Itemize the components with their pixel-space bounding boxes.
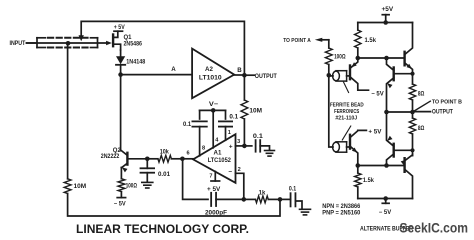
label 10M input <box>74 184 87 190</box>
node 1k 0.1 junction <box>278 197 283 202</box>
transistor Q2 2N2222 <box>121 153 147 173</box>
node Y junction <box>356 163 361 168</box>
label 1N4148 <box>126 59 146 65</box>
capacitor 0.1 at A1 pin 3 <box>256 140 261 152</box>
node X limiter junction <box>384 56 389 61</box>
label A1 <box>214 149 222 156</box>
wire pin6 node to A1 <box>182 158 193 160</box>
ferrite bead top <box>329 71 350 81</box>
leader bottom bead <box>342 126 351 140</box>
label node A <box>171 66 176 73</box>
input terminal label <box>10 40 26 47</box>
label 0.1 bottom <box>289 186 297 192</box>
node A1 pin6 junction <box>180 157 185 162</box>
power -5V Q2 <box>114 192 126 208</box>
svg-text:2N5486: 2N5486 <box>124 41 143 47</box>
ground at 0.01 <box>142 182 153 188</box>
node Y limiter junction <box>384 163 389 168</box>
rail +5V top <box>358 22 413 24</box>
wire Q2 collector elbow <box>121 150 128 155</box>
label OUTPUT buffer <box>432 109 453 116</box>
label 100 ohm buffer <box>334 54 346 60</box>
svg-text:A1: A1 <box>214 149 222 156</box>
label OUTPUT <box>255 73 277 80</box>
rail V- <box>200 109 226 111</box>
svg-text:6: 6 <box>186 151 189 157</box>
label 100 ohm <box>126 183 137 189</box>
svg-text:1.5k: 1.5k <box>363 178 375 184</box>
label A2 <box>205 66 213 73</box>
wire 10k to pin6 node <box>171 158 182 160</box>
label V- terminal <box>209 101 219 108</box>
svg-text:0.1: 0.1 <box>183 122 192 128</box>
label minus input <box>228 169 232 176</box>
node +5V rail junction <box>383 20 388 25</box>
svg-text:OUTPUT: OUTPUT <box>255 73 277 80</box>
wire base node down <box>146 159 148 169</box>
svg-text:7: 7 <box>209 174 212 180</box>
svg-text:+ 5V: + 5V <box>207 187 220 193</box>
wire output to 8 ohm bottom <box>412 112 414 118</box>
label 8 ohm top <box>418 92 425 98</box>
caption LINEAR TECHNOLOGY CORP <box>76 222 249 236</box>
svg-text:1k: 1k <box>259 191 266 197</box>
wire A1 pin 3 <box>236 145 245 147</box>
wire output stub <box>413 111 431 113</box>
wire node B to output <box>244 74 254 76</box>
svg-text:0.1: 0.1 <box>289 186 297 192</box>
shielded cable right bracket <box>91 38 98 48</box>
svg-text:+ 5V: + 5V <box>114 25 125 31</box>
svg-text:0.1: 0.1 <box>229 115 238 121</box>
svg-text:0.01: 0.01 <box>158 172 171 178</box>
node A1 pin3 junction <box>242 144 247 149</box>
svg-text:B: B <box>237 67 242 74</box>
node input centre junction <box>66 41 71 46</box>
resistor 10M input <box>64 179 71 194</box>
svg-text:3: 3 <box>237 139 240 145</box>
label Q1 type <box>124 41 143 47</box>
wire 100 ohm to bead node <box>328 65 330 76</box>
wire node A down to Q2 collector <box>120 75 122 150</box>
svg-text:SeekIC.com: SeekIC.com <box>400 219 469 235</box>
resistor 100 ohm buffer <box>325 48 332 65</box>
svg-text:100Ω: 100Ω <box>126 183 137 189</box>
node Q2 base junction <box>145 157 150 162</box>
transistor current limit top <box>387 58 415 112</box>
node A junction <box>118 72 123 77</box>
wire input node down <box>67 43 69 179</box>
label A1 type <box>208 157 232 164</box>
transistor output bottom PNP <box>401 155 413 199</box>
svg-text:−: − <box>228 169 232 176</box>
shielded cable shield bottom dashed <box>48 47 90 49</box>
svg-text:− 5V: − 5V <box>114 202 126 208</box>
node -5V rail junction <box>383 196 388 201</box>
svg-text:100Ω: 100Ω <box>334 54 346 60</box>
diode 1N4148 <box>116 50 125 72</box>
svg-text:A2: A2 <box>205 66 213 73</box>
svg-text:PNP = 2N5160: PNP = 2N5160 <box>322 210 361 217</box>
label pin 2 <box>238 167 241 173</box>
wire A1 pin 7 <box>214 172 216 182</box>
transistor current limit bottom <box>387 112 415 166</box>
shielded cable left bracket <box>37 38 46 48</box>
power +5V driver bottom <box>368 129 381 135</box>
resistor 10k <box>158 155 172 162</box>
svg-text:1.5k: 1.5k <box>365 38 377 44</box>
label Q1 <box>124 35 133 41</box>
label ferrite bead line2 <box>334 109 359 115</box>
wire input to shield <box>27 42 38 44</box>
label plus input <box>229 143 233 150</box>
label 10M feedback <box>249 108 262 114</box>
wire node Y line <box>358 165 405 167</box>
svg-text:10M: 10M <box>74 184 87 190</box>
label 0.1 right <box>229 115 238 121</box>
power +5V buffer <box>382 7 394 22</box>
resistor 8 ohm top <box>409 84 415 100</box>
wire cap to ground <box>260 146 269 150</box>
wire node Y to 1.5k <box>357 166 359 174</box>
svg-text:8Ω: 8Ω <box>418 126 425 132</box>
transistor driver top PNP <box>350 58 369 90</box>
wire centre conductor <box>27 42 107 44</box>
guard arrow onto shield <box>79 35 84 41</box>
wire pin6 down to 2000pF <box>183 159 208 200</box>
watermark SeekIC.com <box>400 219 469 235</box>
wire node B down <box>243 75 245 100</box>
svg-text:8: 8 <box>202 146 205 152</box>
capacitor 0.1 A1 pin 1 <box>219 121 232 126</box>
leader top bead <box>344 82 349 93</box>
label 1k <box>259 191 266 197</box>
node 2000pF 1k junction <box>242 197 247 202</box>
label TO POINT B <box>432 99 462 105</box>
svg-text:LTC1052: LTC1052 <box>208 157 232 164</box>
svg-text:2: 2 <box>238 167 241 173</box>
node output limiter junction <box>384 110 389 115</box>
svg-text:1N4148: 1N4148 <box>126 59 146 65</box>
wire output line <box>387 111 413 113</box>
label ferrite bead line1 <box>330 102 364 108</box>
wire V- to cap left <box>199 110 201 119</box>
svg-text:Q2: Q2 <box>113 148 122 154</box>
label Q2 type <box>101 154 120 160</box>
power -5V driver top <box>371 91 383 97</box>
note NPN type <box>322 203 361 210</box>
svg-text:INPUT: INPUT <box>10 40 26 47</box>
wire 1.5k to rail <box>357 187 359 199</box>
label pin 7 <box>209 174 212 180</box>
note PNP type <box>322 210 361 217</box>
svg-text:+5V: +5V <box>382 7 394 13</box>
label 0.01 <box>158 172 171 178</box>
svg-text:A: A <box>171 66 176 73</box>
label pin 3 <box>237 139 240 145</box>
ferrite bead bottom <box>333 142 350 152</box>
capacitor 0.1 A1 pin 8 <box>192 121 206 126</box>
wire cap left to pin 8 <box>199 127 201 156</box>
wire A1 pin 2 <box>236 173 244 199</box>
label 8 ohm bottom <box>418 126 425 132</box>
wire node X line <box>358 57 405 59</box>
label 1.5k bottom <box>363 178 375 184</box>
wire to point A with arrow <box>315 38 329 48</box>
label Q2 <box>113 148 122 154</box>
transistor output top NPN <box>405 23 413 85</box>
wire base node to 10k <box>147 158 158 160</box>
wire to point B diagonal <box>413 101 431 112</box>
node bead input junction <box>327 73 332 78</box>
wire pin3 node to cap <box>244 145 251 147</box>
wire Q1 drain <box>113 31 117 37</box>
transistor driver bottom NPN <box>350 130 366 165</box>
svg-text:Q1: Q1 <box>124 35 133 41</box>
svg-text:4: 4 <box>215 138 219 144</box>
svg-text:2N2222: 2N2222 <box>101 154 120 160</box>
rail -5V bottom <box>358 198 413 200</box>
svg-text:OUTPUT: OUTPUT <box>432 109 453 116</box>
wire 10M to pin3 node <box>243 119 245 146</box>
label 0.1 left <box>183 122 192 128</box>
label A2 type <box>199 74 222 81</box>
capacitor 0.01 <box>141 168 155 172</box>
label 1.5k top <box>365 38 377 44</box>
resistor 8 ohm bottom <box>409 118 415 134</box>
wire 0.01 to ground <box>146 173 148 182</box>
ground at pin3 cap <box>265 151 275 157</box>
wire 1.5k to node X <box>357 48 359 58</box>
wire rail to 1.5k <box>357 23 359 31</box>
capacitor 0.1 bottom <box>280 193 295 206</box>
label ferrite bead line3 <box>335 115 357 121</box>
svg-text:FERRITE BEAD: FERRITE BEAD <box>330 102 364 108</box>
wire 2000pF to node <box>216 198 244 200</box>
svg-text:+ 5V: + 5V <box>368 129 381 135</box>
label pin 4 <box>215 138 219 144</box>
label TO POINT A <box>283 38 311 44</box>
wire 8 ohm bottom down <box>412 134 414 156</box>
resistor 10M feedback <box>241 100 248 119</box>
wire guard bootstrap <box>81 21 244 73</box>
op-amp A1 LTC1052 <box>193 134 235 183</box>
svg-text:10k: 10k <box>160 149 170 155</box>
wire input node down to bead2 <box>329 75 333 147</box>
node B junction <box>242 73 247 78</box>
svg-text:1: 1 <box>228 130 231 136</box>
wire V- to cap right <box>225 110 227 119</box>
svg-text:V−: V− <box>209 101 219 108</box>
capacitor 2000pF <box>211 193 216 206</box>
svg-text:8Ω: 8Ω <box>418 92 425 98</box>
svg-text:10M: 10M <box>249 108 262 114</box>
svg-text:#21-110J: #21-110J <box>335 115 357 121</box>
svg-text:0.1: 0.1 <box>253 134 264 140</box>
resistor 1k <box>255 196 268 203</box>
wire 1k to node <box>268 198 280 200</box>
node X junction <box>356 56 361 61</box>
power +5V A1 pin7 <box>207 181 220 193</box>
wire Q2 emitter down <box>120 167 122 178</box>
label pin 6 <box>186 151 189 157</box>
wire node A to A2 input <box>121 74 193 76</box>
svg-text:− 5V: − 5V <box>371 91 383 97</box>
label 0.1 pin3 <box>253 134 264 140</box>
node V- junction <box>211 108 216 113</box>
wire node to 1k <box>244 198 256 200</box>
svg-text:TO POINT A: TO POINT A <box>283 38 311 44</box>
resistor 100 ohm Q2 emitter <box>118 179 125 192</box>
label pin 8 <box>202 146 205 152</box>
resistor 1.5k bottom <box>355 173 361 187</box>
wire bottom rail <box>68 194 280 217</box>
svg-text:− 5V: − 5V <box>379 210 391 216</box>
wire A2 output to node B <box>234 74 244 76</box>
label 2000pF <box>205 210 227 216</box>
power -5V buffer <box>379 199 391 217</box>
wire 0.1 to ground bottom <box>296 201 302 208</box>
svg-text:FERRONICS: FERRONICS <box>334 109 359 115</box>
shielded cable shield top dashed <box>48 37 90 39</box>
caption ALTERNATE BUFFER <box>360 226 413 233</box>
transistor Q1 2N5486 JFET <box>106 35 121 51</box>
svg-text:LT1010: LT1010 <box>199 74 222 81</box>
label 10k <box>160 149 170 155</box>
power +5V Q1 drain <box>114 25 125 31</box>
label pin 1 <box>228 130 231 136</box>
wire V- to pin 4 <box>212 110 214 147</box>
wire 8 ohm to output node <box>412 100 414 112</box>
svg-text:TO POINT B: TO POINT B <box>432 99 462 105</box>
label node B <box>237 67 242 74</box>
node output junction <box>410 110 415 115</box>
svg-text:LINEAR TECHNOLOGY CORP.: LINEAR TECHNOLOGY CORP. <box>76 222 249 236</box>
ground bottom right <box>300 209 311 215</box>
resistor 1.5k top <box>355 30 361 48</box>
svg-text:+: + <box>229 143 233 150</box>
op-amp A2 LT1010 <box>192 49 234 99</box>
wire cap right to pin 1 <box>225 127 227 141</box>
